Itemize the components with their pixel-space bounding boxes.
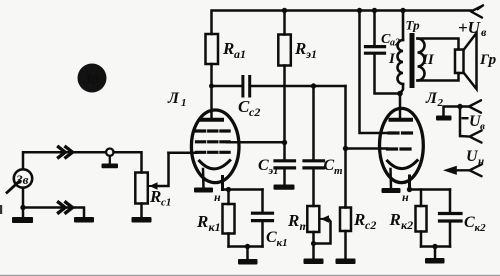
resistor Rэ1 — [278, 11, 291, 143]
svg-text:Л: Л — [425, 90, 438, 107]
wire Rк1 Cк1 bottoms — [229, 245, 263, 248]
wire +Uв supply rail — [212, 11, 472, 35]
label I (primary) — [388, 51, 396, 67]
node cathode Л2 — [407, 187, 412, 192]
terminal −Uв upper — [460, 100, 481, 112]
node rail/Rэ1 — [282, 8, 287, 13]
capacitor Cт — [304, 86, 324, 206]
tube Л1 envelope — [191, 110, 239, 183]
ground Зв — [12, 208, 33, 224]
node anode Л1 / Cс2 junction — [209, 84, 214, 89]
svg-text:э1: э1 — [305, 47, 317, 61]
ground Rс2 — [336, 259, 356, 265]
wire anode Л2 — [399, 94, 402, 118]
ground chassis −Uв — [436, 116, 452, 121]
grid Л1 control — [197, 151, 230, 154]
transformer core — [410, 33, 415, 88]
svg-text:к1: к1 — [277, 237, 288, 249]
svg-text:С: С — [464, 214, 475, 231]
svg-text:к1: к1 — [209, 220, 221, 234]
resistor Rт potentiometer — [307, 206, 330, 259]
wire grid Л1 input — [169, 151, 198, 154]
connector shield — [102, 149, 119, 169]
label Rа1 — [222, 39, 246, 61]
label Rс1 — [149, 187, 171, 209]
grid Л1 suppressor — [197, 129, 230, 132]
wire screen grid Л1 — [227, 141, 285, 144]
svg-text:с1: с1 — [161, 197, 171, 209]
node rail/screen Л2 — [357, 8, 362, 13]
terminal Uн arrow — [443, 164, 482, 176]
badge 30 — [78, 64, 107, 93]
wire secondary to speaker top — [418, 39, 459, 50]
svg-text:н: н — [402, 190, 409, 204]
tube Л2 envelope — [380, 108, 424, 182]
label Rт — [287, 211, 309, 233]
svg-text:с2: с2 — [249, 105, 260, 119]
svg-text:R: R — [389, 210, 401, 229]
node rail/Cа2 — [372, 8, 377, 13]
label Uн — [466, 148, 484, 168]
node ground junction 2 — [432, 244, 437, 249]
node Rт wiper junction — [311, 241, 316, 246]
cable arrows bottom — [59, 202, 73, 212]
label II — [421, 52, 435, 68]
transformer Тр primary winding I — [398, 11, 404, 94]
heater lead Л2 — [389, 169, 392, 188]
grid Л2 control — [388, 147, 414, 150]
grid Л1 screen — [197, 140, 230, 143]
svg-text:к2: к2 — [401, 218, 413, 232]
wire screen Л2 from rail — [360, 11, 389, 134]
ground Cэ1 — [274, 185, 295, 190]
svg-text:в: в — [480, 121, 485, 133]
ground input bottom — [74, 217, 94, 223]
svg-text:С: С — [324, 157, 335, 174]
svg-text:I: I — [388, 51, 396, 67]
node Cт top — [311, 83, 316, 88]
label Rэ1 — [294, 39, 317, 61]
grid Л2 screen — [389, 131, 414, 134]
scan edge bottom — [0, 275, 500, 276]
ground Л2 heater — [382, 188, 401, 193]
label Л2 — [425, 90, 444, 109]
svg-text:R: R — [149, 187, 161, 206]
resistor Rс2 — [340, 208, 351, 259]
label Rс2 — [353, 210, 376, 232]
label Л1 — [167, 90, 187, 109]
wire Rк2 Cк2 bottoms — [421, 245, 450, 248]
pickup Зв — [7, 169, 32, 192]
wire cathode Л1 to Rк1/Cк1 — [223, 188, 263, 191]
svg-text:R: R — [196, 212, 208, 231]
svg-text:н: н — [214, 190, 221, 204]
label н (Л1) — [214, 190, 221, 204]
svg-text:R: R — [287, 211, 299, 230]
svg-text:т: т — [334, 165, 343, 177]
label Cк1 — [266, 229, 288, 249]
svg-text:Л: Л — [167, 90, 180, 107]
capacitor Cк2 — [440, 190, 462, 247]
wire cathode Л2 to Rк2/Cк2 — [410, 188, 451, 191]
node grid Л2 junction — [343, 146, 348, 151]
label Cк2 — [464, 214, 486, 234]
label Rк1 — [196, 212, 221, 234]
node rail/transformer — [400, 8, 405, 13]
wire — [251, 85, 346, 88]
svg-text:к2: к2 — [475, 222, 487, 234]
transformer secondary winding II — [418, 39, 425, 81]
label Cа2 — [381, 32, 400, 49]
svg-text:С: С — [258, 157, 269, 174]
cathode lead н Л2 — [408, 176, 411, 190]
heater lead Л1 — [202, 169, 205, 188]
svg-text:1: 1 — [181, 97, 187, 109]
node Rк1 top — [226, 187, 231, 192]
wire −Uв bus — [459, 107, 462, 137]
resistor Rс1 potentiometer — [135, 153, 168, 217]
capacitor Cа2 — [366, 11, 401, 94]
scan edge left — [0, 205, 2, 214]
wire — [212, 85, 242, 88]
svg-text:Гр: Гр — [479, 52, 497, 68]
svg-text:Зв: Зв — [15, 172, 29, 187]
svg-text:в: в — [481, 25, 487, 39]
wire control grid Л2 — [346, 147, 388, 150]
label Cт — [324, 157, 344, 177]
speaker Гр — [455, 33, 477, 89]
wire anode Л1 feed — [210, 64, 213, 117]
label Тр — [406, 18, 421, 33]
label Rк2 — [389, 210, 414, 232]
ground Л1 heater — [194, 188, 213, 193]
cable arrows top — [59, 147, 73, 157]
capacitor Cк1 — [253, 190, 273, 247]
ground Rк2/Cк2 — [425, 247, 445, 264]
svg-text:30: 30 — [83, 72, 100, 88]
wire to chassis — [444, 107, 461, 116]
label Зв — [15, 172, 29, 187]
label −Uв — [462, 113, 486, 133]
node screen junction — [282, 140, 287, 145]
wire secondary to speaker bottom — [418, 73, 459, 81]
terminal +Uв — [471, 5, 483, 17]
resistor Rа1 — [206, 34, 219, 64]
wire input bottom — [23, 188, 84, 217]
label Cс2 — [238, 97, 260, 119]
svg-text:э1: э1 — [268, 165, 279, 177]
wire Cс2 to grid Л2 — [344, 86, 347, 208]
cathode Л2 — [388, 161, 418, 169]
svg-text:II: II — [421, 52, 435, 68]
node anode Л2 — [397, 91, 403, 97]
terminal −Uв lower — [460, 131, 482, 143]
svg-text:R: R — [294, 39, 306, 58]
label н (Л2) — [402, 190, 409, 204]
svg-text:Тр: Тр — [406, 18, 421, 33]
label Гр — [479, 52, 497, 68]
anode Л1 plate — [201, 118, 222, 122]
resistor Rк2 — [416, 190, 427, 247]
svg-text:с2: с2 — [365, 218, 376, 232]
cathode Л1 — [200, 161, 230, 169]
ground Rс1 — [132, 217, 152, 223]
label +Uв — [458, 18, 487, 39]
capacitor Cэ1 — [275, 143, 295, 185]
node input bottom — [20, 205, 25, 210]
svg-text:R: R — [353, 210, 365, 229]
resistor Rк1 — [223, 190, 235, 247]
wire connector to Rс1 — [114, 152, 142, 172]
node ground junction — [245, 244, 250, 249]
node −Uв — [457, 104, 462, 109]
svg-text:а1: а1 — [234, 47, 246, 61]
svg-text:т: т — [300, 219, 309, 233]
capacitor Cс2 — [243, 77, 250, 97]
svg-text:R: R — [222, 39, 234, 58]
ground Rт — [304, 259, 324, 265]
label Cэ1 — [258, 157, 279, 177]
svg-text:С: С — [266, 229, 277, 246]
cathode lead н Л1 — [221, 177, 224, 190]
wire input top — [23, 152, 106, 169]
anode Л2 plate — [391, 118, 412, 122]
ground Rк1/Cк1 — [238, 247, 258, 265]
